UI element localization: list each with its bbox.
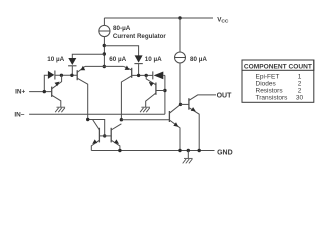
diode D3 (cathode left, anode right) <box>152 71 154 79</box>
svg-text:OUT: OUT <box>217 93 233 100</box>
transistor Q7 base wire <box>105 135 112 137</box>
node Q4 base junction <box>163 89 166 92</box>
transistor Q5 collector up to node C <box>169 104 180 113</box>
transistor Q4 collector to ground <box>146 93 156 107</box>
svg-text:10 µA: 10 µA <box>145 56 162 63</box>
node regulator emitter rail junction <box>103 65 106 68</box>
svg-text:80 µA: 80 µA <box>190 56 207 63</box>
transistor Q6 emitter to rail <box>91 140 99 150</box>
wire Q3 base to diode D3 <box>132 74 153 76</box>
svg-text:1: 1 <box>298 73 302 80</box>
svg-text:IN−: IN− <box>14 111 24 118</box>
transistor Q4 base wire <box>156 90 165 92</box>
transistor Q3 bar <box>131 68 133 78</box>
diode D0 (anode left, cathode right) <box>48 71 54 79</box>
wire IN- input <box>29 113 165 115</box>
wire IN+ input <box>29 91 52 93</box>
svg-text:Transistors: Transistors <box>256 94 289 101</box>
transistor Q8 emitter down <box>189 108 199 151</box>
node junction D2 drop <box>137 74 140 77</box>
svg-text:2: 2 <box>298 80 302 87</box>
wire D0 cathode to Q2 base <box>55 74 77 76</box>
current source I1 80-uA current regulator <box>99 25 110 36</box>
svg-text:COMPONENT COUNT: COMPONENT COUNT <box>244 63 312 70</box>
transistor Q4 bar <box>155 83 157 95</box>
wire mirror input from node A <box>88 120 105 136</box>
wire node B to Q5 base <box>121 119 169 121</box>
table COMPONENT COUNT box <box>242 60 314 102</box>
node on VCC rail feeding 80-uA source <box>178 16 181 19</box>
transistor Q3 collector down <box>121 76 131 120</box>
wire from rail to current regulator <box>103 18 105 26</box>
node C <box>179 103 182 106</box>
node IN+ junction <box>43 90 46 93</box>
node W1 junction D1 <box>70 74 73 77</box>
transistor Q3 emitter up to rail <box>124 66 132 70</box>
ground at Q4 collector <box>141 106 150 108</box>
transistor Q6 bar <box>98 128 100 143</box>
transistor Q6 base wire <box>99 135 104 137</box>
transistor Q2 emitter up to rail <box>77 66 85 72</box>
svg-text:Current Regulator: Current Regulator <box>113 33 167 40</box>
svg-text:60 µA: 60 µA <box>109 56 126 63</box>
wire D3 anode to IN- riser <box>163 74 165 76</box>
node A mirror input <box>86 118 89 121</box>
transistor Q8 base wire <box>181 103 189 105</box>
wire 80uA source to node C <box>179 63 181 104</box>
svg-text:VCC: VCC <box>217 17 229 25</box>
wire IN- riser vertical <box>164 75 166 114</box>
node Q5 emitter on GND rail <box>178 149 181 152</box>
node Q7 emitter on GND rail <box>118 149 121 152</box>
wire ground stub <box>187 151 189 159</box>
wire VCC top rail <box>104 17 213 19</box>
wire shared emitter rail Q2 Q3 <box>85 65 124 67</box>
transistor Q5 emitter down <box>169 120 180 151</box>
svg-text:80-µA: 80-µA <box>113 25 131 32</box>
wire branch to diode D1 <box>72 54 104 58</box>
node junction Q4 emitter <box>145 74 148 77</box>
transistor Q5 bar <box>168 111 170 122</box>
wire current regulator output vertical <box>103 37 105 67</box>
transistor Q7 emitter to rail <box>111 140 120 150</box>
transistor Q1 bar <box>51 87 53 97</box>
wire IN+ riser to diode D0 anode <box>44 75 48 91</box>
wire branch to diode D2 <box>104 46 138 56</box>
svg-text:Diodes: Diodes <box>256 80 277 87</box>
wire GND rail <box>91 150 214 152</box>
transistor Q1 collector to ground <box>52 95 61 107</box>
node W1 junction Q1 emitter <box>60 74 63 77</box>
transistor Q8 bar <box>188 98 190 110</box>
svg-text:IN+: IN+ <box>15 89 25 96</box>
wire D1 cathode down to input base wire <box>71 66 73 76</box>
transistor Q7 bar <box>110 128 112 143</box>
ground symbol on GND rail <box>184 157 193 159</box>
node B mirror output <box>120 118 123 121</box>
svg-text:10 µA: 10 µA <box>47 56 64 63</box>
diode D2 10 uA (cathode down) <box>135 55 143 62</box>
node mirror bases <box>103 134 106 137</box>
transistor Q2 collector down <box>77 78 88 119</box>
current source I2 80 uA <box>175 52 186 63</box>
svg-text:Epi-FET: Epi-FET <box>256 73 280 80</box>
node ground stub on GND rail <box>187 149 190 152</box>
svg-text:Resistors: Resistors <box>256 87 284 94</box>
node regulator branch 1 <box>103 44 106 47</box>
svg-text:GND: GND <box>217 149 233 156</box>
svg-text:30: 30 <box>296 94 304 101</box>
diode D1 10 uA (cathode down) <box>68 58 76 65</box>
transistor Q4 emitter up-left <box>146 75 156 84</box>
transistor Q2 bar <box>76 70 78 80</box>
wire rail to 80uA source <box>179 18 181 52</box>
node Q8 emitter on GND rail <box>198 149 201 152</box>
node regulator branch 2 <box>103 52 106 55</box>
svg-text:2: 2 <box>298 87 302 94</box>
transistor Q8 collector to OUT <box>189 95 216 101</box>
wire D2 cathode to base wire <box>138 64 140 76</box>
transistor Q6 collector diode tie <box>93 120 100 131</box>
transistor Q1 emitter up <box>52 75 62 89</box>
ground at Q1 collector <box>57 106 66 108</box>
transistor Q7 collector up <box>111 124 121 130</box>
